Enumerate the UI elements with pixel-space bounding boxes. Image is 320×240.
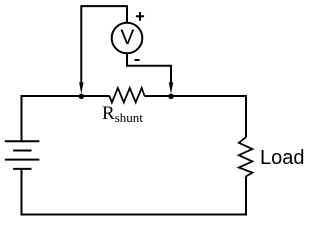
svg-text:Rshunt: Rshunt	[102, 103, 143, 125]
wire top side left of shunt	[21, 95, 110, 97]
svg-text:V: V	[120, 26, 134, 49]
wire voltmeter left lead	[81, 6, 127, 82]
arrow left lead	[79, 82, 83, 94]
label +	[136, 12, 144, 21]
wire top side right of shunt	[144, 95, 246, 97]
wire right side lower	[245, 176, 247, 215]
wire right side upper	[245, 95, 247, 137]
battery	[5, 141, 40, 169]
resistor Load	[239, 137, 253, 176]
voltmeter U1	[112, 23, 143, 54]
wire left side upper	[21, 95, 23, 141]
node right (junction dot)	[168, 94, 173, 99]
wire voltmeter right lead	[127, 53, 171, 82]
resistor Rshunt	[109, 88, 144, 102]
svg-text:Load: Load	[260, 147, 305, 169]
wire left side lower	[21, 169, 23, 215]
arrow right lead	[169, 82, 173, 94]
label -	[135, 59, 140, 61]
wire bottom side	[21, 214, 248, 216]
node left (junction dot)	[79, 94, 84, 99]
